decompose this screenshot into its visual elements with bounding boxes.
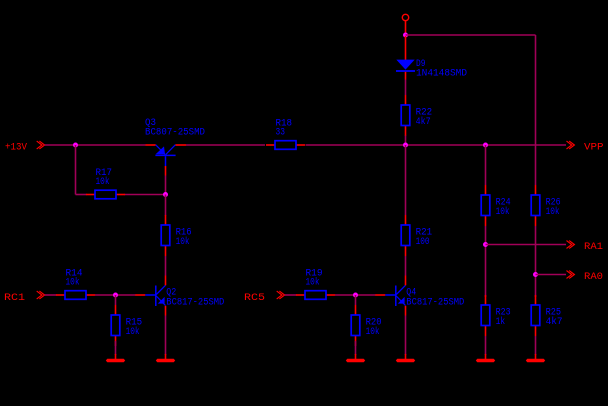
- svg-text:BC817-25SMD: BC817-25SMD: [406, 298, 464, 309]
- resistor R26: [531, 185, 560, 226]
- resistor R15: [111, 305, 142, 346]
- resistor R16: [161, 215, 191, 256]
- wire base column down to R16: [165, 195, 167, 216]
- svg-text:10k: 10k: [176, 236, 190, 248]
- node junction RC1/R15: [113, 293, 118, 298]
- ground R23: [476, 354, 495, 362]
- wire Q3 base to junction: [165, 176, 167, 195]
- wire R26 down through RA0 to R25: [535, 226, 537, 297]
- svg-text:BC807-25SMD: BC807-25SMD: [145, 128, 205, 139]
- node junction top tee: [403, 33, 408, 38]
- ground R25: [526, 354, 545, 362]
- resistor R22: [401, 95, 432, 136]
- svg-text:BC817-25SMD: BC817-25SMD: [166, 298, 224, 309]
- port VPP: [567, 141, 604, 153]
- svg-text:+13V: +13V: [5, 143, 27, 154]
- wire R17 row left: [76, 194, 87, 196]
- svg-text:4k7: 4k7: [546, 316, 563, 328]
- svg-text:1N4148SMD: 1N4148SMD: [416, 69, 467, 80]
- port RA1: [567, 241, 604, 253]
- resistor R21: [401, 215, 432, 256]
- node junction RA1: [483, 242, 488, 247]
- wire rail right to VPP: [306, 144, 567, 146]
- terminal circle top: [402, 14, 408, 20]
- wire R25 to ground: [535, 336, 537, 355]
- transistor Q3 (PNP): [145, 118, 205, 176]
- node junction RA0: [533, 272, 538, 277]
- svg-text:RA1: RA1: [584, 242, 603, 253]
- svg-text:1k: 1k: [496, 316, 506, 328]
- wire R19 to Q4 base: [335, 294, 376, 296]
- resistor R20: [351, 305, 381, 346]
- svg-text:10k: 10k: [546, 206, 560, 218]
- ground R15: [106, 354, 125, 362]
- port RC1: [4, 291, 45, 304]
- wire right column down to R26: [535, 35, 537, 185]
- svg-text:RA0: RA0: [584, 272, 603, 283]
- wire Q4 emitter to ground: [405, 316, 407, 356]
- node junction rail/R22/R21: [403, 143, 408, 148]
- wire R22 to rail: [405, 136, 407, 146]
- svg-text:10k: 10k: [496, 206, 510, 218]
- svg-text:10k: 10k: [66, 277, 80, 289]
- resistor R19: [296, 269, 335, 300]
- svg-text:10k: 10k: [126, 326, 140, 338]
- diode D9: [396, 36, 467, 80]
- wire R23 to ground: [485, 336, 487, 355]
- port RA0: [567, 271, 604, 283]
- wire circle stub: [405, 21, 407, 34]
- svg-text:RC1: RC1: [4, 293, 25, 304]
- wire rail down to R21: [405, 145, 407, 215]
- wire D9 to R22: [405, 80, 407, 96]
- svg-text:10k: 10k: [96, 176, 110, 188]
- svg-text:RC5: RC5: [244, 293, 265, 304]
- port +13V: [5, 141, 45, 153]
- wire R16 to Q2 collector: [165, 256, 167, 276]
- resistor R23: [481, 295, 510, 336]
- ground Q2 emitter: [156, 354, 175, 362]
- wire R21 to Q4 collector: [405, 256, 407, 276]
- node junction rail/R24: [483, 143, 488, 148]
- resistor R25: [531, 295, 562, 336]
- transistor Q2 (NPN): [135, 276, 224, 316]
- svg-text:VPP: VPP: [584, 143, 604, 154]
- wire junction down to R24: [485, 145, 487, 185]
- node junction RC5/R20: [353, 293, 358, 298]
- wire R15 to ground: [115, 341, 117, 355]
- wire RA1 row: [486, 244, 567, 246]
- wire R24 down through RA1 to R23: [485, 226, 487, 297]
- wire R17 branch down: [75, 145, 77, 195]
- port RC5: [244, 291, 285, 304]
- transistor Q4 (NPN): [375, 276, 464, 316]
- wire rail middle: [186, 144, 265, 146]
- wire Q2 emitter to ground: [165, 316, 167, 356]
- wire RC5 to R19: [285, 294, 297, 296]
- ground R20: [346, 354, 365, 362]
- wire R14 to Q2 base: [95, 294, 136, 296]
- node junction R17/base: [163, 192, 168, 197]
- svg-text:10k: 10k: [366, 326, 380, 338]
- resistor R17: [86, 168, 125, 199]
- wire top horizontal: [406, 34, 536, 36]
- svg-text:33: 33: [276, 128, 286, 139]
- node junction +13V/R17: [73, 143, 78, 148]
- svg-text:100: 100: [416, 237, 430, 248]
- wire R17 row right: [125, 194, 166, 196]
- resistor R14: [56, 269, 95, 300]
- wire junction to R20: [355, 295, 357, 305]
- resistor R24: [481, 185, 510, 226]
- svg-text:4k7: 4k7: [416, 116, 431, 128]
- wire RA0 row: [536, 274, 567, 276]
- wire R20 to ground: [355, 341, 357, 355]
- svg-text:10k: 10k: [306, 277, 320, 289]
- wire +13V rail left: [45, 144, 146, 146]
- resistor R18: [266, 119, 305, 150]
- wire junction to R15: [115, 295, 117, 305]
- wire RC1 to R14: [45, 294, 57, 296]
- ground Q4 emitter: [396, 354, 415, 362]
